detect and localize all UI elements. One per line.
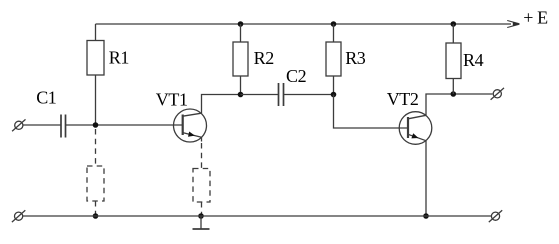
- wire C1 to VT1 base: [66, 124, 183, 126]
- ground: [193, 216, 210, 229]
- node VT2 emitter rail: [423, 213, 429, 219]
- resistor R4: [446, 43, 461, 79]
- wire R2 to C2: [241, 94, 279, 96]
- wire VT1 collector: [202, 95, 241, 114]
- wire R3 top lead: [333, 24, 335, 42]
- svg-text:VT1: VT1: [156, 90, 188, 110]
- node R5 rail junction: [93, 213, 99, 219]
- wire R4 top lead: [452, 24, 454, 43]
- svg-text:+ E: + E: [523, 7, 548, 27]
- svg-text:R4: R4: [463, 50, 484, 70]
- svg-text:R3: R3: [345, 48, 366, 68]
- wire VT1 emitter dashed: [201, 137, 203, 141]
- node R4 top: [451, 21, 457, 27]
- resistor R3: [326, 42, 341, 76]
- wire R1 top lead: [95, 24, 97, 41]
- resistor R1: [87, 41, 104, 76]
- terminal output: [491, 88, 504, 100]
- transistor VT1: [174, 109, 207, 142]
- terminal bottom left: [12, 210, 25, 222]
- +E arrowhead: [507, 21, 519, 28]
- wire R3 bottom lead: [333, 76, 335, 95]
- node R4 bottom: [451, 91, 457, 97]
- wire top supply rail: [96, 23, 512, 25]
- wire to VT2 base: [334, 95, 409, 129]
- resistor dashed R6: [193, 169, 210, 203]
- resistor dashed R5: [87, 166, 104, 201]
- terminal input: [12, 119, 25, 131]
- svg-text:C2: C2: [286, 66, 306, 86]
- wire dashed R6 to rail: [201, 202, 203, 216]
- svg-text:VT2: VT2: [387, 89, 419, 109]
- transistor VT2: [399, 112, 432, 145]
- wire VT2 emitter: [425, 141, 427, 216]
- svg-text:R2: R2: [254, 48, 274, 68]
- terminal bottom right: [489, 210, 502, 222]
- resistor R2: [233, 42, 248, 76]
- wire VT2 collector: [426, 94, 493, 115]
- wire dashed R5 to rail: [95, 201, 97, 216]
- wire bottom rail: [23, 215, 492, 217]
- capacitor C2: [279, 83, 284, 106]
- wire R1 bottom lead: [95, 75, 97, 125]
- node R6 rail junction: [198, 213, 204, 219]
- wire R2 top lead: [240, 24, 242, 42]
- wire R2 bottom lead: [240, 76, 242, 95]
- svg-text:R1: R1: [109, 47, 129, 67]
- svg-text:C1: C1: [36, 88, 56, 108]
- wire R4 bottom lead: [452, 79, 454, 95]
- capacitor C1: [61, 115, 66, 138]
- node R3 bottom: [331, 92, 337, 98]
- node C1/R1 junction: [93, 122, 99, 128]
- node R2 bottom: [238, 92, 244, 98]
- wire C2 to R3 node: [284, 94, 334, 96]
- node R2 top: [238, 21, 244, 27]
- node R3 top: [331, 21, 337, 27]
- wire input to C1: [23, 124, 61, 126]
- wire dashed lead to R5: [95, 129, 97, 166]
